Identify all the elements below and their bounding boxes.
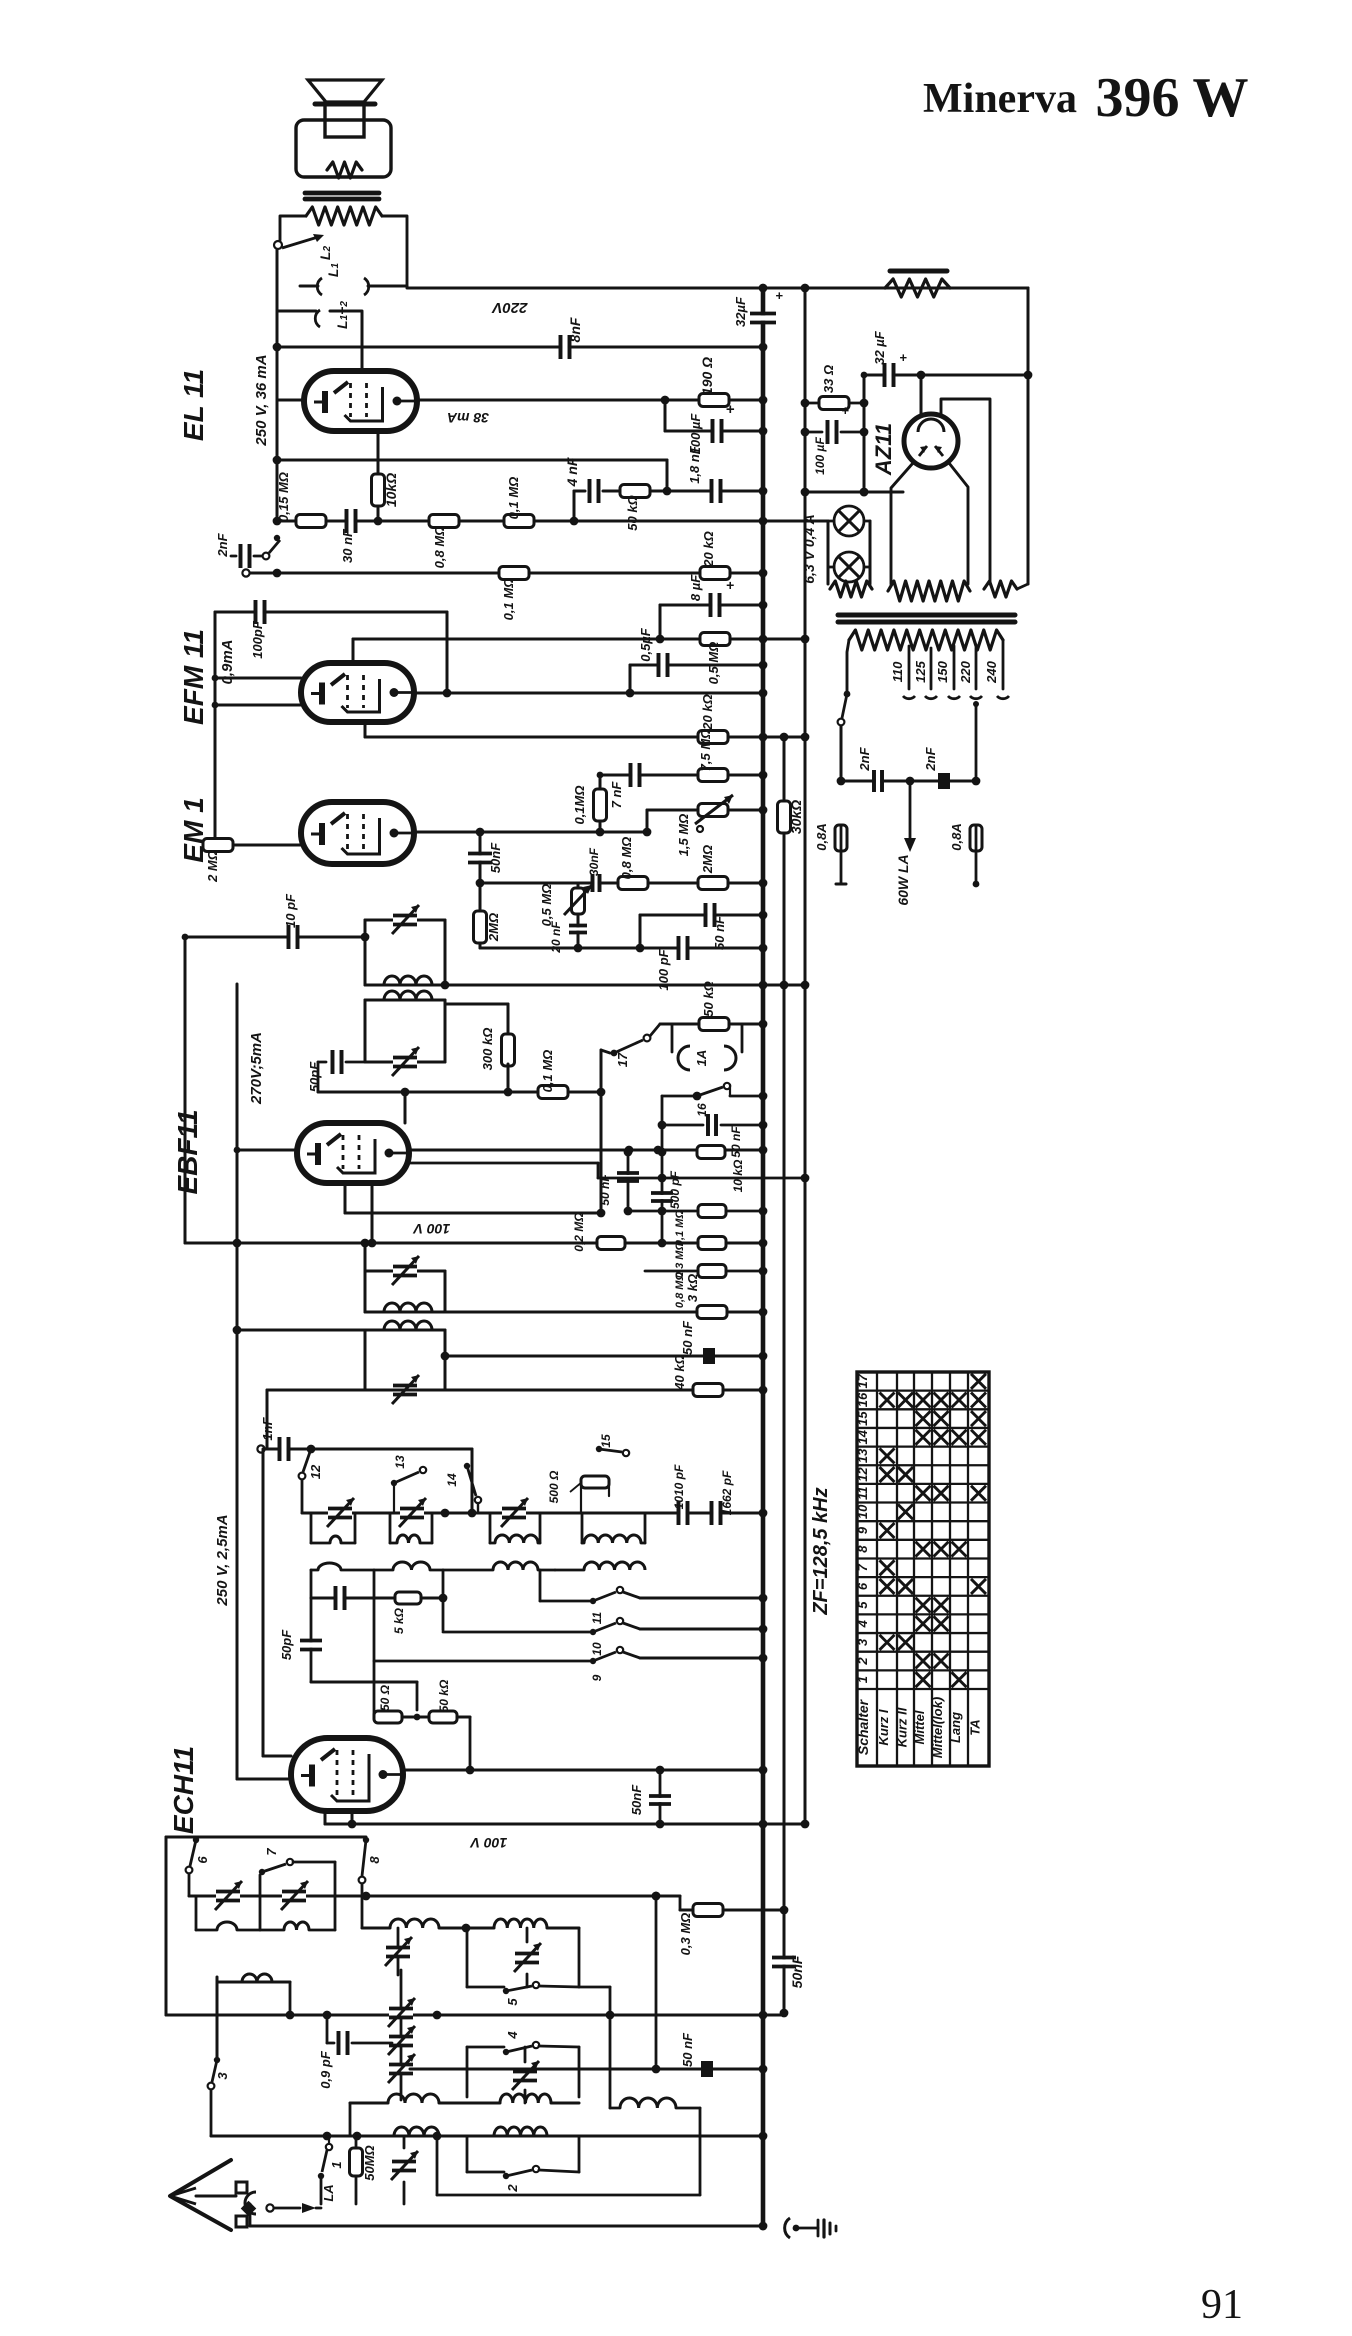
wire left vertical x237 [233, 984, 242, 1779]
svg-text:50 nF: 50 nF [729, 1126, 743, 1158]
trimmer kurz2 [512, 2047, 539, 2103]
capacitor 50nF ant [680, 2032, 713, 2077]
svg-text:2MΩ: 2MΩ [700, 845, 715, 874]
svg-text:50pF: 50pF [279, 1629, 294, 1660]
svg-text:7,5 MΩ: 7,5 MΩ [698, 729, 713, 772]
svg-text:12: 12 [308, 1464, 323, 1479]
wire row 492 [801, 488, 903, 497]
svg-text:0,8 MΩ: 0,8 MΩ [432, 526, 447, 569]
wire coil rowA [362, 1924, 579, 1933]
wire EFM11 left grid [215, 677, 301, 680]
title text 396 W [1096, 67, 1249, 129]
svg-text:8: 8 [367, 1856, 382, 1864]
capacitor 50nF avc [662, 1114, 767, 1158]
svg-text:+: + [726, 577, 734, 593]
svg-text:0,1 MΩ: 0,1 MΩ [674, 1210, 686, 1247]
svg-text:0,1 MΩ: 0,1 MΩ [540, 1050, 555, 1093]
trimmer T3 [392, 1256, 419, 1285]
coil A1 [390, 1919, 439, 1928]
svg-text:2nF: 2nF [215, 532, 230, 557]
capacitor 50nF det [598, 1148, 639, 1211]
wire EBF11 bottom pin1 [344, 1183, 347, 1213]
svg-text:6: 6 [855, 1582, 870, 1590]
wire row 2136 [211, 2132, 767, 2141]
svg-text:100pF: 100pF [250, 620, 265, 659]
trimmer f1b [281, 1881, 308, 1910]
resistor 7.5MΩ [698, 729, 728, 782]
svg-text:10: 10 [590, 1642, 604, 1656]
terminal circle speaker [274, 241, 282, 249]
wire 4nF stub [570, 491, 585, 525]
svg-text:50 nF: 50 nF [680, 2032, 695, 2067]
capacitor 50pF T1 [307, 1050, 365, 1092]
svg-text:13: 13 [393, 1455, 407, 1469]
wire bus V2 [804, 288, 807, 1824]
switch 7 [259, 1848, 335, 1896]
switch 15 [581, 1434, 629, 1513]
resistor 5kΩ [392, 1592, 421, 1634]
coil osc row1 G3 [490, 1535, 540, 1543]
svg-text:32 µF: 32 µF [872, 330, 887, 365]
tube ECH11 [291, 1738, 403, 1811]
svg-text:+: + [726, 401, 735, 418]
svg-text:13: 13 [855, 1448, 870, 1463]
resistor 2MΩ row883 [698, 845, 728, 890]
wire row 775 [597, 771, 768, 780]
svg-text:10 kΩ: 10 kΩ [731, 1159, 745, 1192]
coil B3 [610, 2098, 700, 2108]
capacitor 100uF right [801, 403, 864, 475]
switch 5 [467, 1982, 579, 2006]
label 220V [490, 299, 528, 316]
tube EL11 [304, 371, 417, 431]
tap 110 [890, 646, 915, 699]
table numbers column [855, 1373, 871, 1755]
svg-text:50 kΩ: 50 kΩ [437, 1679, 451, 1712]
resistor 0.8MΩ det [674, 1265, 726, 1309]
svg-text:6: 6 [195, 1856, 210, 1864]
coil T1 primary [384, 976, 432, 985]
coil T3 [384, 1303, 432, 1312]
resistor 2MΩ grid [203, 839, 301, 883]
resistor 190Ω [699, 357, 729, 407]
svg-text:500 Ω: 500 Ω [547, 1470, 561, 1503]
resistor 50Ω [374, 1684, 402, 1723]
wire antenna row [196, 2195, 236, 2198]
resistor 0.1MΩ g [504, 477, 534, 528]
svg-text:32µF: 32µF [733, 296, 748, 327]
resistor 10kΩ screen [697, 1146, 745, 1193]
svg-text:50 kΩ: 50 kΩ [625, 495, 640, 530]
svg-text:Minerva: Minerva [923, 76, 1077, 122]
svg-text:1A: 1A [694, 1050, 709, 1067]
label 38mA [447, 410, 489, 426]
capacitor 2nF switch branch [215, 532, 262, 568]
capacitor 50nF EM1 [468, 842, 503, 873]
coil B2 [500, 2094, 551, 2103]
svg-text:2MΩ: 2MΩ [486, 913, 501, 942]
svg-text:50MΩ: 50MΩ [362, 2145, 377, 2180]
wire row 1449 [257, 1445, 472, 1513]
svg-text:125: 125 [913, 660, 928, 682]
wire left vertical upper [273, 311, 282, 521]
wire row 1390 [267, 1386, 767, 1449]
switch 11 [540, 1570, 767, 1624]
capacitor A2 trimmer [514, 1928, 541, 1987]
coil osc row1 G4 [582, 1535, 645, 1543]
capacitor 32uF main [733, 288, 783, 327]
tap arrow L2 [282, 234, 333, 260]
IF can T4 [365, 1330, 445, 1390]
svg-text:Kurz I: Kurz I [876, 1709, 891, 1746]
wire row 1513 [302, 1509, 767, 1518]
svg-text:7 nF: 7 nF [609, 781, 624, 809]
field coil bar [890, 269, 947, 274]
wire row 1824 100V [325, 1820, 809, 1829]
svg-text:270V;5mA: 270V;5mA [248, 1032, 265, 1105]
trimmer ant [391, 2136, 418, 2204]
wire 100uF row [661, 396, 768, 436]
capacitor 50nF on V3 [772, 1955, 805, 1988]
wire osc coil box verticals [311, 1513, 645, 1543]
svg-text:220: 220 [958, 660, 973, 683]
wire row 915 [640, 911, 767, 948]
svg-text:0,1MΩ: 0,1MΩ [572, 785, 587, 824]
svg-text:16: 16 [855, 1392, 870, 1407]
wire ECH11 anode row [403, 1766, 767, 1775]
switch 16 [662, 1083, 767, 1117]
wire V5 [950, 288, 1032, 584]
switch 12 [299, 1449, 323, 1513]
trimmer osc2 [399, 1498, 426, 1527]
resistor 0.1MΩ det [674, 1205, 726, 1247]
wire anode lead from L1+2 [330, 311, 362, 371]
label 6.3V [801, 514, 817, 584]
wire ECH11 cathode [237, 1778, 291, 1781]
wire row 605 8uF [656, 601, 768, 644]
wire row 985 [441, 981, 810, 990]
coil C1 [394, 2127, 439, 2136]
tap 220 [958, 648, 982, 699]
field coil zigzag [885, 279, 950, 297]
wire 50pF osc branch [310, 1598, 313, 1682]
ground symbol [785, 2218, 836, 2238]
capacitor 50pF osc [279, 1629, 322, 1660]
wire 300k bottom [504, 1064, 513, 1096]
output transformer core [305, 193, 379, 199]
svg-text:0,1 MΩ: 0,1 MΩ [501, 578, 516, 621]
wire AVC bus V3 upper [783, 737, 786, 1910]
resistor 33Ω [801, 365, 864, 410]
coil C2 [494, 2127, 547, 2136]
wire EL11 cathode [377, 431, 380, 521]
svg-text:17: 17 [855, 1373, 870, 1388]
svg-text:ZF=128,5 kHz: ZF=128,5 kHz [810, 1487, 832, 1615]
trimmer T1 primary [392, 905, 419, 934]
resistor 10kΩ cathode [372, 473, 400, 507]
potentiometer 0.5MΩ [539, 883, 592, 948]
svg-text:396 W: 396 W [1096, 67, 1249, 129]
svg-text:11: 11 [590, 1611, 604, 1624]
wire row 1271 [645, 1267, 767, 1276]
wire 220 tap down [972, 701, 981, 785]
svg-text:ECH11: ECH11 [168, 1746, 199, 1834]
resistor 20kΩ row573 [700, 531, 730, 579]
title text Minerva [923, 76, 1077, 122]
label AZ11 [871, 423, 896, 476]
resistor 0.5MΩ [700, 633, 730, 685]
trimmer stack2 [388, 2026, 415, 2055]
svg-text:110: 110 [890, 661, 905, 682]
svg-text:0,1 MΩ: 0,1 MΩ [506, 477, 521, 520]
wire EBF11 bottom pin2 [371, 1183, 374, 1243]
svg-text:1662 pF: 1662 pF [720, 1470, 734, 1515]
wire AZ11 top [920, 375, 923, 414]
trimmer T1 secondary [392, 1047, 419, 1076]
antenna jack [236, 2182, 256, 2227]
svg-text:9: 9 [590, 1674, 604, 1681]
wire LA lamp [895, 781, 916, 906]
wire 8nF row [277, 343, 767, 352]
wire EBF11 cathode left [237, 1149, 297, 1152]
svg-text:5 kΩ: 5 kΩ [392, 1607, 406, 1634]
wire row 665 [626, 661, 768, 698]
switch 1 [318, 2136, 344, 2204]
svg-text:0,5µF: 0,5µF [638, 627, 653, 662]
svg-text:10: 10 [855, 1504, 870, 1519]
svg-text:8nF: 8nF [567, 317, 583, 342]
trimmer stack3 [388, 2054, 415, 2083]
svg-text:Kurz II: Kurz II [895, 1707, 910, 1747]
wire row 2015 [166, 2009, 788, 2020]
IF can T3 [365, 1243, 445, 1312]
capacitor 10pF [283, 893, 298, 949]
label 250V 2.5mA [214, 1514, 231, 1606]
svg-text:0,5 MΩ: 0,5 MΩ [706, 642, 721, 685]
svg-text:50nF: 50nF [629, 1784, 644, 1815]
svg-text:60W LA: 60W LA [895, 854, 911, 905]
wire EFM11 anode row [414, 689, 767, 698]
capacitor 1010pF [672, 1464, 688, 1525]
coil f1b [260, 1896, 335, 1930]
svg-text:11: 11 [855, 1486, 870, 1500]
capacitor 8nF [561, 317, 584, 359]
label EFM11 [178, 629, 209, 725]
svg-text:240: 240 [984, 660, 999, 683]
wire row 1598 [311, 1570, 447, 1630]
svg-text:40 kΩ: 40 kΩ [672, 1354, 687, 1390]
coil B1 [388, 2094, 439, 2103]
switch 14 [445, 1463, 481, 1513]
wire avc right vertical [652, 1892, 661, 2074]
fuse 0.8A right [949, 823, 982, 887]
wire left vertical x215 [212, 612, 219, 838]
wire pot row [643, 806, 768, 837]
svg-text:50 nF: 50 nF [712, 915, 727, 950]
wire EFM11 cathode [215, 704, 301, 707]
wire left vertical x185 [182, 934, 189, 1243]
coil L1 arcs [300, 263, 407, 296]
wire 220V line [407, 284, 1028, 293]
wire EBF11 diode row [409, 1163, 809, 1182]
resistor 40kΩ [672, 1354, 723, 1396]
svg-text:+: + [841, 403, 849, 418]
switch 4 [467, 2031, 579, 2097]
coil osc row1 G2 [390, 1535, 432, 1543]
svg-text:1,8 nF: 1,8 nF [687, 445, 702, 484]
svg-text:7: 7 [264, 1848, 279, 1856]
svg-text:14: 14 [855, 1429, 870, 1444]
wire row 883 [476, 879, 768, 888]
svg-text:0,8A: 0,8A [814, 823, 829, 850]
svg-text:3: 3 [855, 1638, 870, 1646]
tube EFM11 [301, 663, 414, 722]
coil osc row2 G4 [555, 1562, 645, 1570]
svg-text:12: 12 [855, 1467, 870, 1482]
resistor 0.1MΩ vert [572, 785, 607, 824]
wire T1 sec top right [445, 1004, 508, 1035]
capacitor 2nF a [857, 746, 882, 792]
capacitor 20nF pot [549, 921, 587, 954]
table band labels [876, 1697, 983, 1758]
svg-text:2 MΩ: 2 MΩ [205, 850, 220, 883]
label 270V 5mA [248, 1032, 265, 1105]
wire row 1312 [445, 1308, 767, 1317]
wire EBF11 grid cap [401, 1088, 410, 1123]
wire avc vertical 662 [658, 1096, 667, 1243]
trimmer T4 [392, 1375, 419, 1404]
capacitor 100pF [250, 600, 265, 659]
lamp 2 [828, 552, 870, 582]
svg-text:TA: TA [968, 1719, 983, 1735]
capacitor 50nF row915 [706, 903, 728, 950]
resistor 0.1MΩ row573 [499, 567, 529, 621]
label 0.9mA [219, 639, 236, 684]
winding rect [984, 581, 1028, 597]
output transformer primary zigzag [306, 207, 382, 225]
svg-text:100 V: 100 V [469, 1835, 507, 1851]
wire row 948 [480, 944, 767, 953]
switch 17 [601, 1035, 650, 1092]
wire 100pF row [215, 612, 447, 693]
wire row 573 [242, 569, 767, 578]
svg-text:10kΩ: 10kΩ [383, 473, 399, 507]
svg-text:0,8A: 0,8A [949, 823, 964, 850]
wire filter1 row [189, 1892, 680, 1901]
svg-text:5: 5 [505, 1998, 520, 2006]
capacitor 1nF [260, 1416, 289, 1461]
mains primary zigzag [849, 630, 1003, 650]
wire EL11 grid row [273, 517, 828, 526]
trimmer osc3 [501, 1498, 528, 1527]
svg-text:0,3 MΩ: 0,3 MΩ [678, 1913, 693, 1956]
resistor 30kΩ [778, 800, 805, 834]
switch 9 [374, 1570, 767, 1717]
speaker cone [308, 80, 382, 104]
label ZF [810, 1487, 832, 1615]
label EBF11 [172, 1109, 203, 1194]
svg-text:5: 5 [855, 1601, 870, 1609]
svg-text:38 mA: 38 mA [447, 410, 489, 426]
svg-text:100 V: 100 V [412, 1221, 450, 1237]
wire x217 vertical [216, 1977, 219, 2060]
capacitor 30nF [340, 509, 356, 563]
resistor 50MΩ ant [350, 2136, 378, 2204]
coil osc row2 G1 [311, 1563, 374, 1570]
trimmer osc1 [327, 1498, 354, 1527]
svg-text:EBF11: EBF11 [172, 1109, 203, 1194]
capacitor 500pF det [651, 1170, 682, 1209]
coil f1a [196, 1896, 260, 1930]
tap 125 [913, 648, 937, 699]
mains switch [838, 691, 851, 781]
svg-text:Schalter: Schalter [855, 1698, 871, 1755]
wire row 2069 [410, 2065, 767, 2074]
resistor 0.1MΩ row1092 [538, 1050, 568, 1099]
switch tone [263, 535, 281, 560]
svg-text:30nF: 30nF [587, 847, 601, 876]
resistor 2MΩ vert [474, 911, 502, 943]
svg-text:2: 2 [855, 1657, 870, 1666]
wire primary left [847, 640, 849, 692]
svg-text:9: 9 [855, 1526, 870, 1534]
svg-text:15: 15 [599, 1434, 613, 1448]
capacitor 100pF row948 [656, 936, 688, 991]
svg-text:0,15 MΩ: 0,15 MΩ [276, 472, 291, 522]
resistor 300kΩ [480, 1028, 515, 1071]
coil L1+2 arc [277, 301, 350, 329]
svg-text:50 Ω: 50 Ω [378, 1684, 392, 1711]
label EM1 [178, 797, 209, 862]
capacitor 1662pF [712, 1470, 735, 1525]
wire lamp row [828, 521, 870, 584]
tube EM1 [301, 802, 414, 864]
trimmer f1a [215, 1881, 242, 1910]
wire EM1 anode row [414, 828, 647, 837]
svg-text:LA: LA [321, 2184, 336, 2201]
wire antenna coil row [217, 1974, 290, 2015]
wire EL11 grid left [277, 399, 304, 402]
table X marks [880, 1374, 987, 1687]
coil A2 [494, 1919, 547, 1928]
svg-text:50 kΩ: 50 kΩ [701, 981, 716, 1016]
fuse 0.8A left [814, 823, 847, 884]
capacitor 4nF [564, 457, 599, 503]
svg-text:1: 1 [329, 2161, 344, 2168]
svg-text:+: + [775, 288, 783, 303]
wire grid feedback row [277, 460, 671, 495]
svg-text:1,5 MΩ: 1,5 MΩ [676, 814, 691, 857]
coil osc row1 G1 [311, 1536, 355, 1543]
svg-text:4: 4 [505, 2031, 520, 2040]
wire EL11 anode row [417, 396, 767, 405]
wire kurz box3 [467, 2136, 579, 2172]
wire coil B3 return [437, 2108, 700, 2195]
resistor 500Ω [547, 1470, 609, 1503]
jack TA 1A [672, 1024, 742, 1070]
capacitor osc cathode [336, 1586, 345, 1610]
wire row 1717 [374, 1714, 470, 1770]
svg-text:AZ11: AZ11 [871, 423, 896, 476]
wire sw17 vertical [600, 1092, 603, 1213]
wire x263 vertical [263, 1449, 291, 1756]
wire primary right lead [382, 216, 407, 286]
svg-text:1010 pF: 1010 pF [672, 1464, 686, 1509]
svg-text:3: 3 [215, 2072, 230, 2080]
trimmer A1 [385, 1928, 412, 1975]
winding HV [888, 581, 970, 601]
svg-text:6,3 V 0,4 A: 6,3 V 0,4 A [801, 514, 817, 584]
